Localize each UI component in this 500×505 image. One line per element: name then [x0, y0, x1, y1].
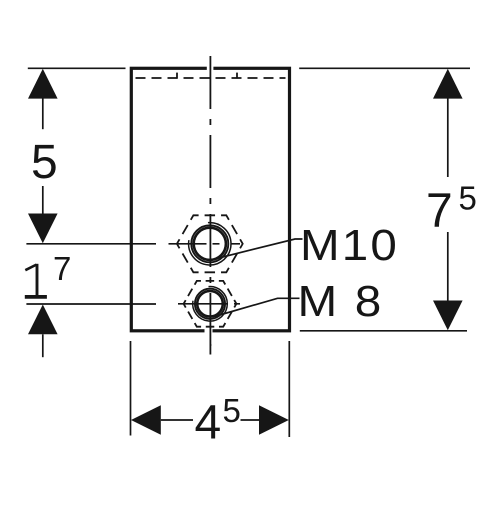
- dim5 top extension line: [28, 67, 126, 69]
- nut M8 outer circle: [195, 289, 225, 319]
- nut M10 hexagon dashed: [177, 215, 243, 272]
- dim75 top extension line: [299, 67, 470, 69]
- nut M8 hexagon dashed: [184, 281, 237, 327]
- tick on dashed line right: [236, 73, 238, 79]
- dim17 arrow up: [28, 305, 58, 335]
- dim17 digit 1 foot bar: [25, 295, 47, 299]
- dim5 bottom extension line: [26, 243, 156, 245]
- leader line to M8 label: [215, 298, 300, 316]
- part outline rectangle: [131, 68, 289, 331]
- vertical centerline stub below outline: [209, 344, 211, 355]
- gap in bottom border for centerline: [205, 327, 213, 335]
- dim17 extension line: [26, 303, 156, 305]
- nut M10 hole circle: [194, 228, 226, 260]
- dim75 line lower: [447, 232, 449, 302]
- dim17 digit 1 flag: [25, 265, 36, 271]
- svg-text:5: 5: [223, 392, 241, 429]
- svg-text:M 8: M 8: [298, 277, 384, 326]
- dim5 arrow up: [28, 69, 58, 99]
- dim17 stem: [42, 334, 44, 357]
- dim75 arrow up: [433, 69, 463, 99]
- svg-text:7: 7: [426, 185, 453, 238]
- dim75 line upper: [447, 98, 449, 177]
- nut M10 thread arc: [189, 223, 231, 265]
- dim45 right extension line: [288, 341, 290, 437]
- dim75 arrow down: [433, 301, 463, 331]
- nut M10 outer circle: [191, 225, 228, 262]
- svg-text:M10: M10: [300, 221, 399, 270]
- nut M8 thread arc: [193, 287, 228, 322]
- dim45 left extension line: [130, 341, 132, 436]
- tick on dashed line left: [176, 73, 178, 79]
- vertical centerline dash-dot: [209, 56, 211, 355]
- svg-text:4: 4: [195, 397, 222, 450]
- dim45 line right: [241, 419, 260, 421]
- hidden edge dashed line below top: [136, 77, 286, 79]
- svg-text:5: 5: [459, 180, 477, 217]
- dim75 bottom extension line: [300, 330, 467, 332]
- dim5 arrow down: [28, 214, 58, 244]
- svg-text:5: 5: [31, 136, 58, 189]
- dim45 line left: [161, 419, 193, 421]
- dim45 arrow right: [259, 405, 289, 435]
- leader line to M10 label: [217, 239, 303, 259]
- nut M10 horizontal centerline: [169, 243, 241, 245]
- dim45 arrow left: [131, 405, 161, 435]
- nut M8 hole circle: [197, 291, 223, 317]
- nut M8 horizontal centerline: [178, 303, 241, 305]
- svg-text:7: 7: [53, 250, 71, 287]
- dim5 line lower: [42, 186, 44, 214]
- dim17 digit 1 stem: [36, 264, 39, 296]
- gap in top border for centerline: [207, 65, 214, 73]
- dim5 line upper: [42, 98, 44, 129]
